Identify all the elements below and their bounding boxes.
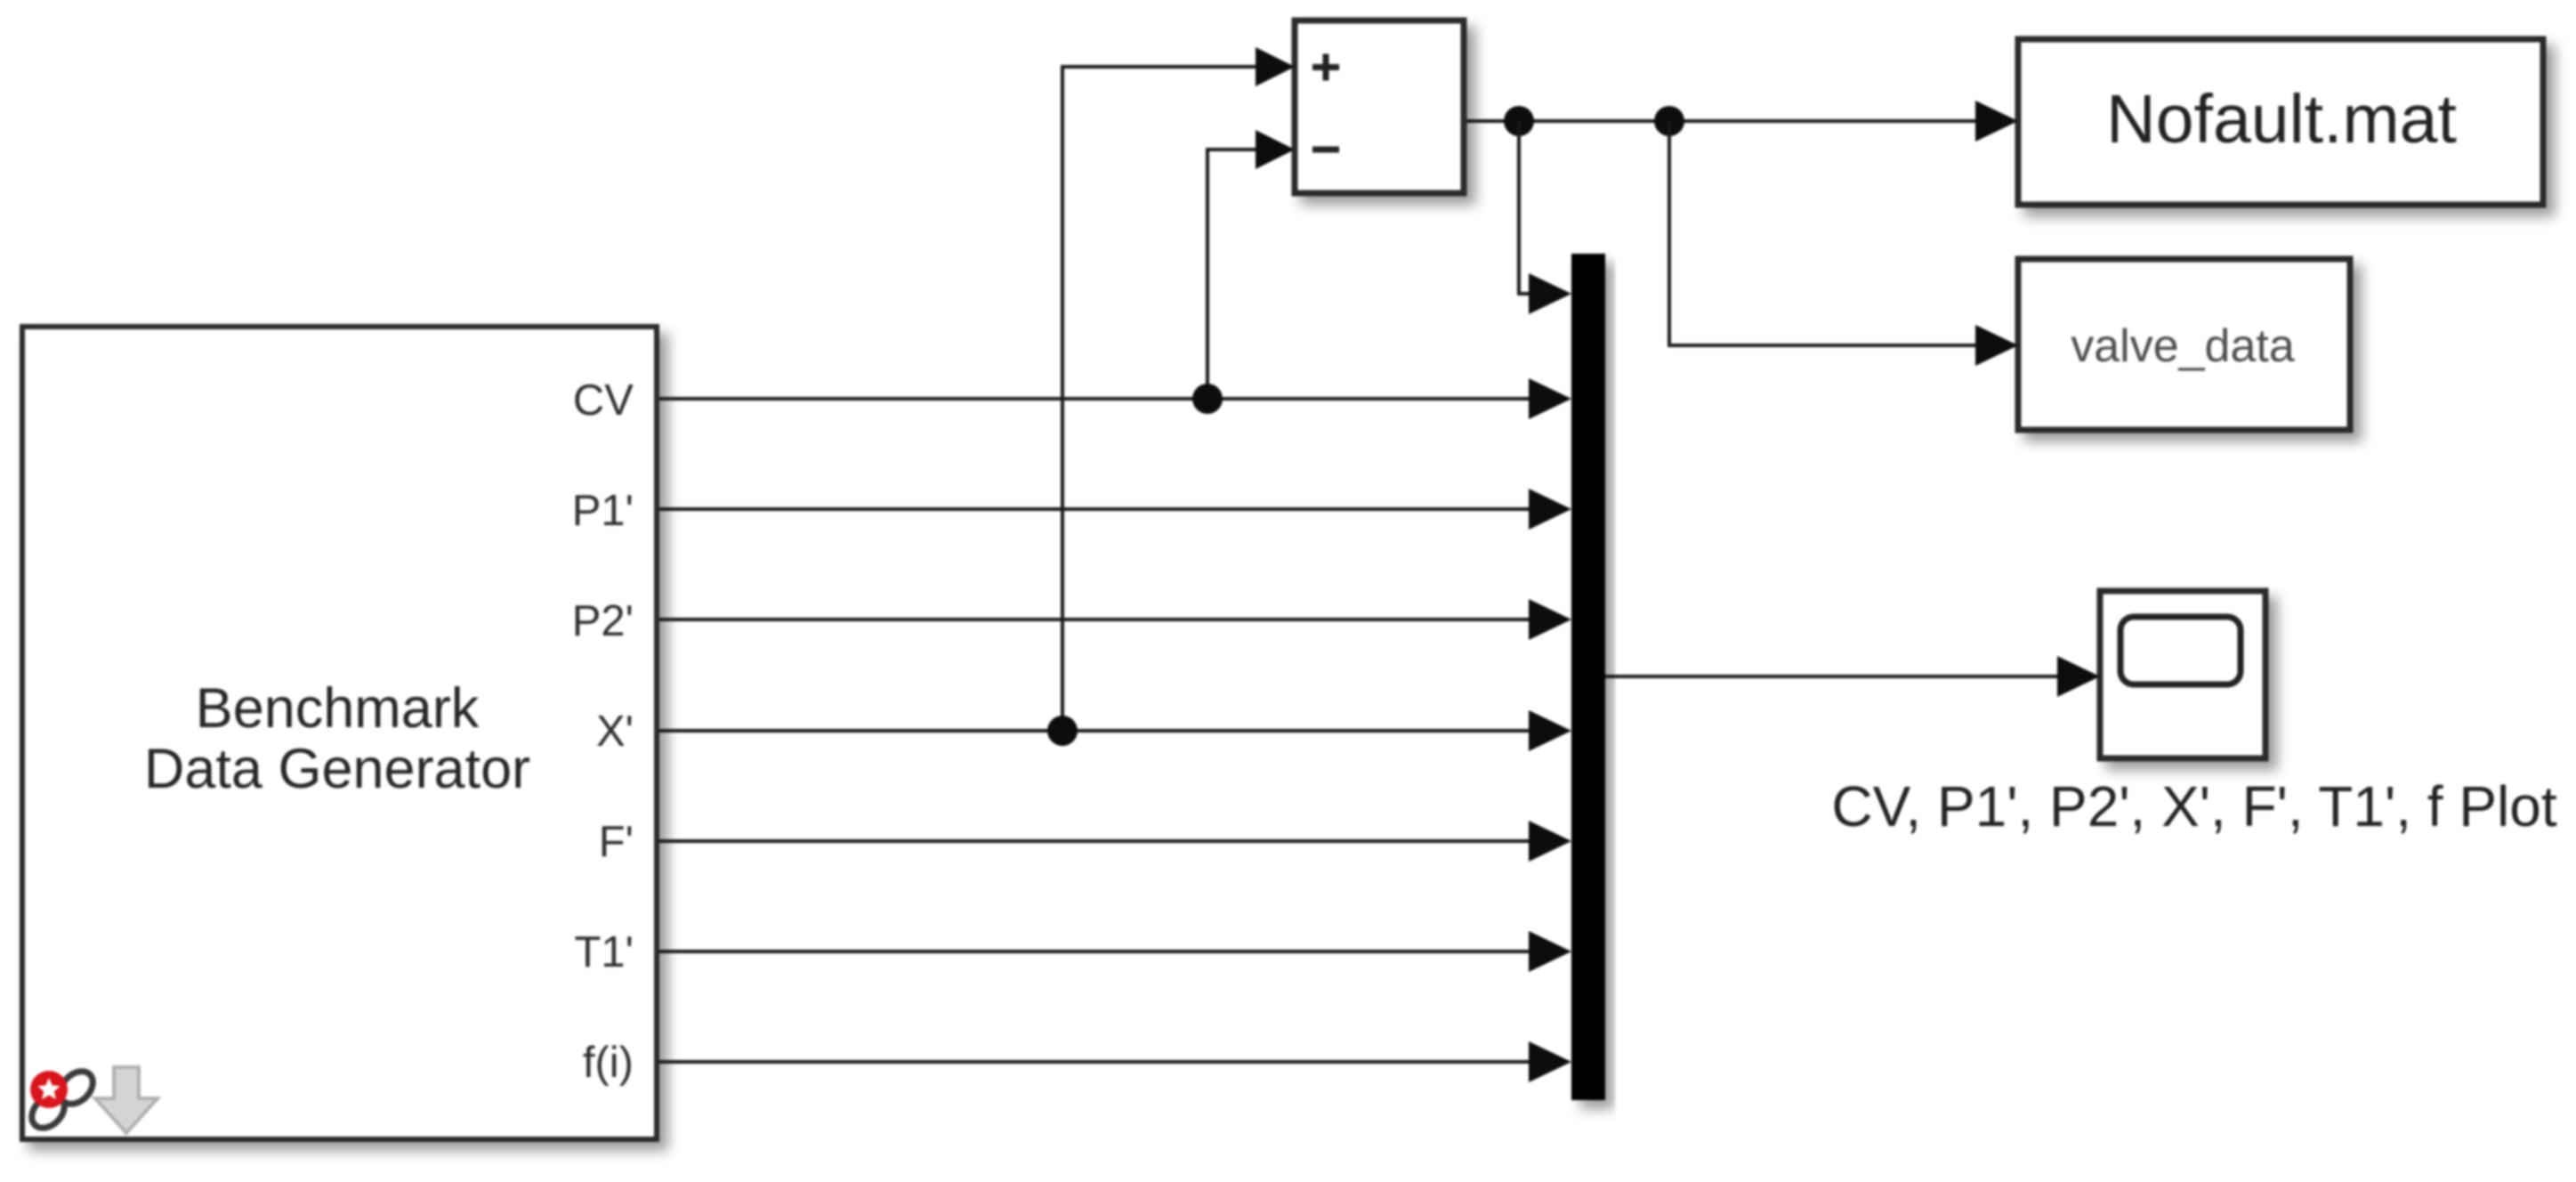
svg-text:X': X' bbox=[596, 708, 634, 756]
sum block U1 bbox=[1295, 20, 1464, 193]
mux output wire to scope bbox=[1605, 656, 2100, 697]
wire P1' bbox=[659, 489, 1571, 530]
wire sum output to valve_data bbox=[1669, 121, 2018, 366]
library link badge bbox=[26, 1065, 100, 1135]
svg-text:P2': P2' bbox=[572, 597, 634, 645]
svg-text:valve_data: valve_data bbox=[2071, 320, 2295, 372]
svg-text:F': F' bbox=[599, 818, 634, 866]
wire X' to sum plus input bbox=[1062, 47, 1295, 731]
block update arrow icon bbox=[95, 1067, 157, 1133]
wire CV bbox=[659, 378, 1571, 419]
svg-text:Data Generator: Data Generator bbox=[144, 738, 530, 800]
svg-text:Nofault.mat: Nofault.mat bbox=[2106, 81, 2457, 158]
svg-text:CV: CV bbox=[573, 376, 634, 425]
To File block Nofault.mat bbox=[2018, 39, 2543, 205]
wire CV to sum minus input bbox=[1207, 130, 1295, 399]
wire F' bbox=[659, 821, 1571, 862]
wire sum output to mux input 1 bbox=[1519, 121, 1571, 314]
wire X' bbox=[659, 710, 1571, 751]
scope block bbox=[2100, 591, 2265, 758]
svg-text:f(i): f(i) bbox=[583, 1039, 634, 1087]
subsystem block Benchmark Data Generator bbox=[22, 327, 657, 1139]
wire T1' bbox=[659, 931, 1571, 972]
mux block bbox=[1571, 254, 1605, 1100]
wire f(i) bbox=[659, 1041, 1571, 1082]
svg-text:P1': P1' bbox=[572, 487, 634, 535]
wire P2' bbox=[659, 599, 1571, 640]
To Workspace block valve_data bbox=[2018, 259, 2350, 430]
svg-text:Benchmark: Benchmark bbox=[196, 677, 480, 740]
junction node on X' wire bbox=[1047, 716, 1078, 746]
junction node B on sum output bbox=[1654, 106, 1684, 136]
svg-text:T1': T1' bbox=[574, 928, 634, 976]
junction node A on sum output bbox=[1504, 106, 1534, 136]
sum output wire to Nofault.mat bbox=[1466, 101, 2018, 142]
svg-text:CV, P1', P2', X', F', T1', f P: CV, P1', P2', X', F', T1', f Plot bbox=[1831, 774, 2556, 838]
junction node on CV wire bbox=[1192, 384, 1223, 414]
